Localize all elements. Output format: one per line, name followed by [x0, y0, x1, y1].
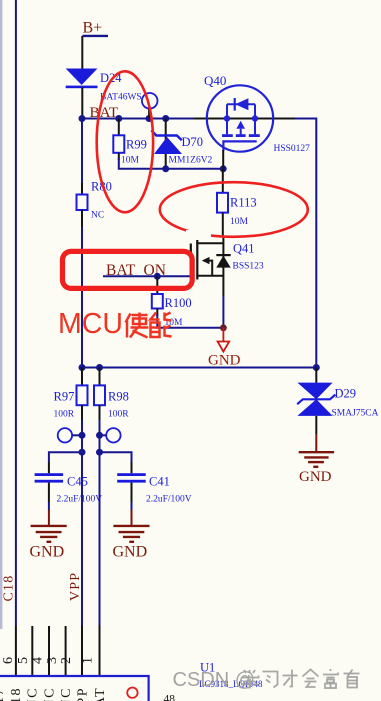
svg-text:CSDN @: CSDN @: [173, 669, 256, 691]
label 10M (R100): [165, 318, 184, 328]
resistor R99: [113, 119, 124, 161]
svg-text:MCU: MCU: [58, 308, 123, 340]
junction: BAT at R99: [115, 115, 122, 122]
svg-text:10M: 10M: [230, 217, 249, 227]
wire: branch to C45: [49, 452, 82, 473]
svg-text:D70: D70: [182, 135, 204, 149]
test point circle right: [100, 428, 121, 442]
svg-text:VPP: VPP: [68, 572, 83, 601]
pin number 3: [45, 657, 60, 664]
pin name NC (pin5): [26, 687, 41, 701]
label R80: [91, 180, 112, 194]
wire: D29 bottom pin: [315, 416, 317, 435]
resistor R98: [94, 368, 105, 421]
label D70: [182, 135, 204, 149]
svg-text:Q41: Q41: [233, 242, 255, 256]
svg-text:3: 3: [45, 657, 60, 664]
ground symbol (C41): [113, 510, 150, 561]
pin name C18: [9, 687, 24, 701]
wire: R99 bottom to gate node: [119, 158, 223, 169]
label SMAJ75CA: [332, 409, 379, 419]
net label C18 (rotated): [2, 575, 17, 602]
transistor Q41 (N-MOSFET BSS123): [191, 236, 231, 296]
junction: right TP tap: [96, 432, 103, 439]
svg-text:C45: C45: [67, 475, 88, 489]
label D29: [335, 387, 357, 401]
svg-text:2.2uF/100V: 2.2uF/100V: [146, 495, 192, 505]
svg-text:48: 48: [164, 694, 176, 701]
label R99: [126, 138, 147, 152]
pin: Q40 right pin: [272, 118, 295, 120]
annotation rounded rect (BAT_ON highlight): [63, 251, 193, 288]
TVS diode D29: [297, 383, 335, 416]
wire: pale cut-off wire at left image edge: [0, 0, 2, 629]
svg-text:100R: 100R: [108, 410, 129, 420]
capacitor C45: [35, 473, 64, 510]
svg-text:C17: C17: [0, 687, 7, 701]
wire: BAT vertical (R98 to pin1): [99, 420, 101, 626]
label 2.2uF/100V (C45): [57, 495, 103, 505]
svg-text:10M: 10M: [121, 156, 140, 166]
resistor R97: [77, 368, 88, 421]
annotation text CJK 能 (red): [151, 313, 172, 338]
pin number 48: [164, 694, 176, 701]
wire: Q41 source down to GND node: [222, 296, 224, 328]
junction: BAT at D70: [162, 115, 169, 122]
svg-text:B+: B+: [83, 20, 103, 37]
label R97: [54, 390, 75, 404]
wire: branch to C41: [100, 452, 132, 473]
svg-text:MM1Z6V2: MM1Z6V2: [169, 156, 213, 166]
label MM1Z6V2: [169, 156, 213, 166]
power port B+: [83, 20, 109, 37]
wire: VPP vertical (R97 to pin2): [81, 420, 83, 626]
test point circle left: [58, 428, 82, 442]
ground symbol (D29): [299, 435, 334, 485]
label C41: [149, 475, 170, 489]
capacitor C41: [117, 473, 146, 510]
watermark CSDN @: [173, 669, 256, 691]
label 10M (R99): [121, 156, 140, 166]
svg-text:GND: GND: [299, 469, 332, 485]
svg-text:R113: R113: [230, 196, 257, 210]
label R100: [165, 296, 192, 310]
svg-text:R98: R98: [108, 390, 129, 404]
pin name NC (pin3): [59, 687, 74, 701]
zener diode D70: [151, 119, 182, 169]
svg-text:GND: GND: [30, 544, 65, 561]
label R113: [230, 196, 257, 210]
svg-text:GND: GND: [113, 544, 148, 561]
wire: BAT_ON net wire to Q41 gate: [103, 275, 190, 277]
pin: connector pin 1 (BAT): [99, 626, 101, 677]
pin number 4: [31, 657, 46, 664]
svg-text:BAT46WS: BAT46WS: [100, 93, 142, 103]
svg-text:HSS0127: HSS0127: [274, 144, 311, 154]
wire: C18 net vertical wire: [15, 0, 17, 626]
label 100R (R97): [54, 410, 75, 420]
junction: BAT_ON at R100: [154, 273, 161, 280]
junction: mid bus at R98: [96, 364, 103, 371]
label BAT46WS: [100, 93, 142, 103]
wire: mid horizontal bus: [82, 367, 316, 369]
wire: D29 top pin: [315, 368, 317, 383]
svg-text:6: 6: [1, 657, 16, 664]
svg-text:R97: R97: [54, 390, 75, 404]
transistor Q40 (P-MOSFET in circle): [207, 85, 273, 151]
resistor R100: [152, 276, 163, 316]
watermark CJK 有: [344, 670, 360, 688]
ground symbol (C45): [30, 510, 67, 561]
svg-text:BAT: BAT: [106, 262, 136, 279]
svg-text:BSS123: BSS123: [233, 262, 264, 272]
junction: mid bus at R97: [79, 364, 86, 371]
label Q40: [204, 73, 226, 88]
junction: BAT at D24: [79, 115, 86, 122]
wire: gate node down to R113: [222, 169, 224, 193]
svg-text:2.2uF/100V: 2.2uF/100V: [57, 495, 103, 505]
pin number 5: [16, 657, 31, 664]
label Q41: [233, 242, 255, 256]
junction: gate node: [220, 165, 227, 172]
wire: R100 bottom to Q41 source node: [157, 314, 223, 328]
net label BAT: [90, 104, 119, 121]
annotation text CJK 使 (red): [126, 313, 149, 338]
annotation ellipse 2 (around R113): [160, 182, 308, 240]
pin name VPP: [75, 687, 90, 701]
svg-text:1: 1: [81, 657, 96, 664]
junction: C45 branch: [79, 449, 86, 456]
pin: connector pin 6 (C18): [15, 626, 17, 677]
junction: mid bus at D29: [313, 364, 320, 371]
watermark CJK 会: [303, 670, 319, 688]
pin: Q40 left pin: [194, 118, 208, 120]
wire: BAT bus horizontal: [82, 118, 194, 120]
pin: connector pin 2 (VPP): [81, 626, 83, 677]
label HSS0127: [274, 144, 311, 154]
label 100R (R98): [108, 410, 129, 420]
pin name C17 (partial, off-screen pin): [0, 687, 7, 701]
pin name BAT: [93, 687, 108, 701]
label 2.2uF/100V (C41): [146, 495, 192, 505]
power port GND (arrow style) at Q41: [208, 328, 241, 369]
IC U1 connector box outline: [0, 676, 149, 701]
label U1: [200, 661, 215, 675]
label R98: [108, 390, 129, 404]
svg-text:NC: NC: [91, 211, 104, 221]
pin: connector pin 4: [48, 626, 50, 676]
pin number 6: [1, 657, 16, 664]
label BSS123: [233, 262, 264, 272]
svg-text:SMAJ75CA: SMAJ75CA: [332, 409, 379, 419]
svg-text:C18: C18: [9, 687, 24, 701]
svg-text:4: 4: [31, 657, 46, 664]
svg-text:C18: C18: [2, 575, 17, 602]
wire: B+ stem to D24 anode: [81, 36, 83, 69]
svg-text:BAT: BAT: [93, 687, 108, 701]
net label BAT_ON: [106, 262, 166, 279]
watermark CJK 学: [241, 670, 259, 688]
watermark CJK 富: [323, 669, 338, 688]
pin name NC (pin4): [42, 687, 57, 701]
svg-text:Q40: Q40: [204, 73, 226, 88]
pin number 2: [59, 657, 74, 664]
junction: BAT at test point: [146, 115, 153, 122]
label NC (R80): [91, 211, 104, 221]
svg-text:NC: NC: [26, 687, 41, 701]
annotation text MCU (red): [58, 308, 123, 340]
watermark CJK 习: [263, 672, 278, 688]
wire: D24 cathode to BAT bus: [81, 88, 83, 119]
label D24: [100, 71, 122, 85]
diode D24: [66, 69, 98, 89]
junction: C41 branch: [96, 449, 103, 456]
pin number 1: [81, 657, 96, 664]
svg-text:C41: C41: [149, 475, 170, 489]
wire: left vertical from R80 to mid bus: [81, 227, 83, 368]
svg-text:D29: D29: [335, 387, 357, 401]
resistor R113: [217, 193, 228, 236]
test point circle near BAT46WS: [142, 93, 158, 119]
pin: Q40 gate pin down to node: [222, 150, 224, 169]
svg-text:R99: R99: [126, 138, 147, 152]
watermark CJK 才: [283, 670, 298, 687]
svg-text:2: 2: [59, 657, 74, 664]
resistor R80: [77, 119, 88, 228]
label LC9318_LQFP48: [199, 679, 263, 689]
svg-text:R100: R100: [165, 296, 192, 310]
pin: connector pin 3: [65, 626, 67, 676]
pin-1 marker red circle on U1: [127, 688, 137, 698]
junction: Q41 source / GND: [220, 324, 227, 331]
svg-text:100R: 100R: [54, 410, 75, 420]
label 10M (R113): [230, 217, 249, 227]
net label VPP (rotated): [68, 572, 83, 601]
junction: left TP tap: [79, 432, 86, 439]
label C45: [67, 475, 88, 489]
svg-text:NC: NC: [59, 687, 74, 701]
junction: D70 bottom: [162, 165, 169, 172]
svg-text:GND: GND: [208, 353, 241, 369]
svg-text:NC: NC: [42, 687, 57, 701]
annotation ellipse 1 (around D24/R99): [97, 71, 153, 212]
wire: Q40 to right bus corner: [295, 119, 317, 368]
pin: connector pin 5: [31, 626, 33, 676]
svg-text:5: 5: [16, 657, 31, 664]
svg-text:VPP: VPP: [75, 687, 90, 701]
